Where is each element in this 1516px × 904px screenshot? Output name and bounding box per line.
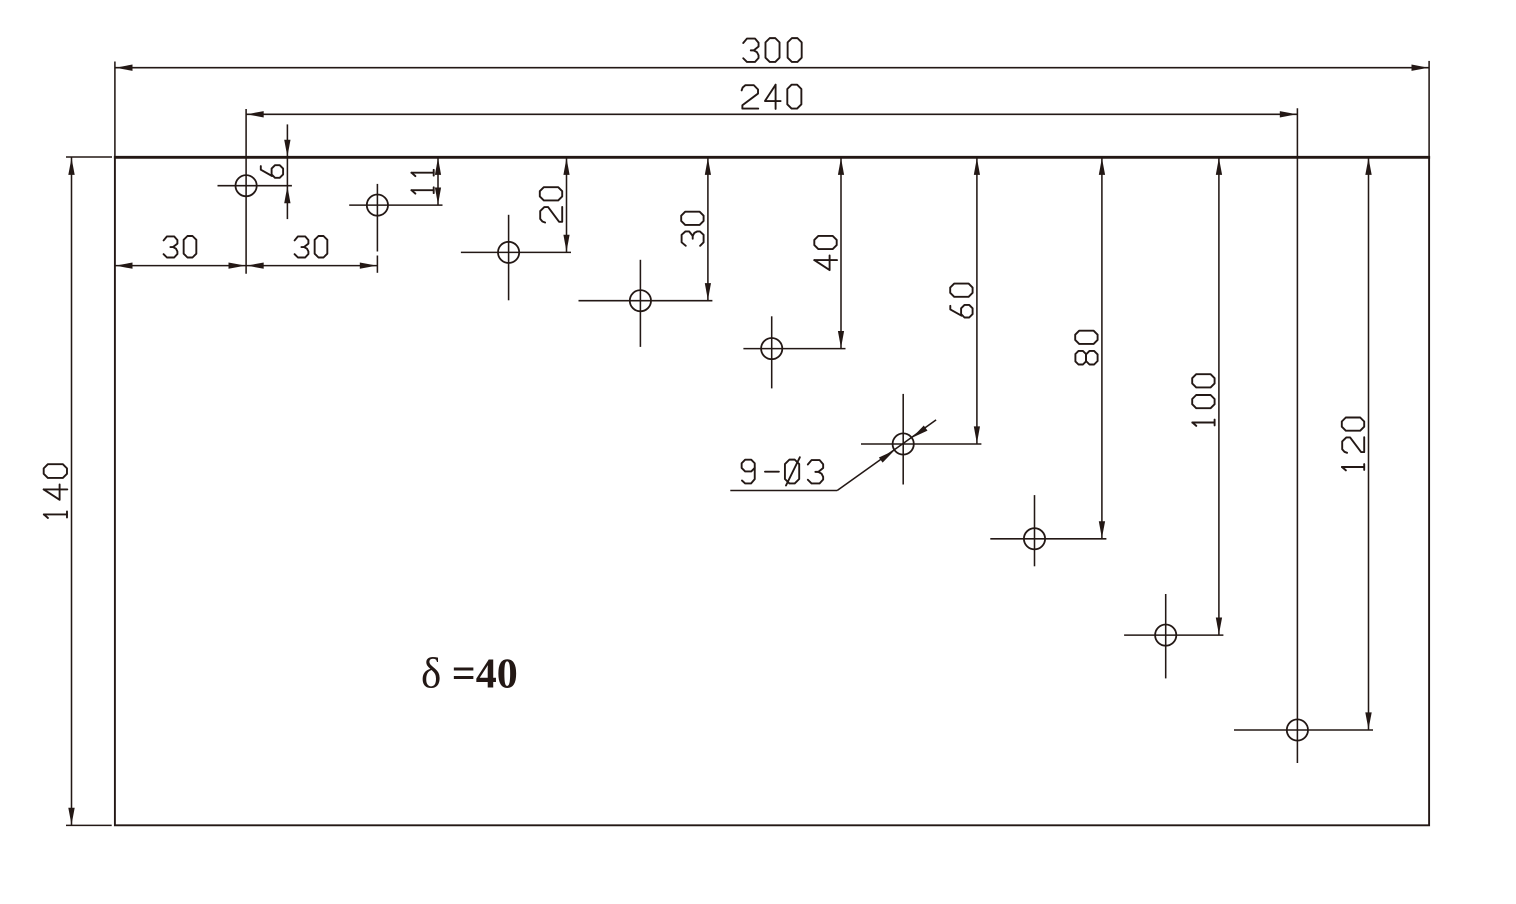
svg-text:δ =40: δ =40 [421, 651, 518, 698]
